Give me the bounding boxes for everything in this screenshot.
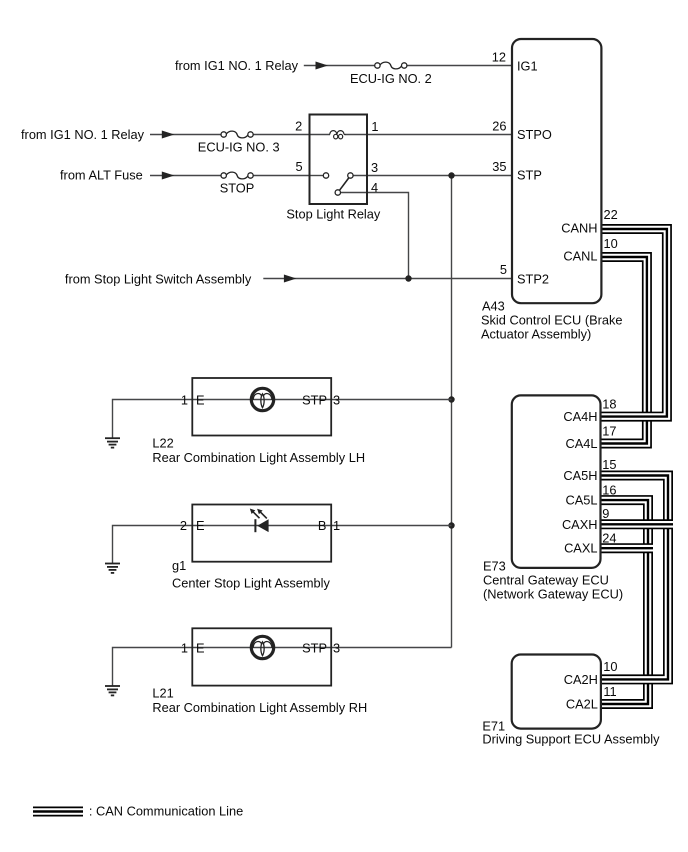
fuse STOP — [221, 172, 253, 179]
ground (L22) — [105, 438, 120, 447]
svg-text:18: 18 — [602, 397, 616, 412]
relay contact pin5 circle — [323, 173, 328, 178]
svg-text:2: 2 — [180, 518, 187, 533]
wire L22 row through box to STP bus — [192, 399, 451, 401]
bulb lamp L21 — [251, 636, 273, 658]
CAN line CA5L to CA2L — [601, 500, 649, 704]
arrow from Stop Light Switch Assembly — [284, 275, 297, 283]
svg-text:CANL: CANL — [563, 249, 597, 264]
wire g1 row through box to STP bus — [192, 525, 451, 527]
relay coil — [330, 131, 346, 139]
svg-text:Actuator Assembly): Actuator Assembly) — [481, 327, 591, 342]
svg-text:CA4L: CA4L — [565, 436, 597, 451]
wire relay pin3 to A43 STP — [353, 175, 512, 177]
svg-text:(Network Gateway ECU): (Network Gateway ECU) — [483, 587, 623, 602]
svg-text:CA5L: CA5L — [565, 493, 597, 508]
svg-text:IG1: IG1 — [517, 59, 538, 74]
svg-text:E: E — [196, 518, 205, 533]
svg-text:g1: g1 — [172, 558, 186, 573]
ECU box A43 Skid Control ECU — [512, 39, 601, 303]
svg-text:5: 5 — [295, 159, 302, 174]
svg-text:A43: A43 — [482, 299, 505, 314]
svg-text:: CAN Communication Line: : CAN Communication Line — [89, 804, 243, 819]
svg-text:1: 1 — [181, 640, 188, 655]
L21 box — [192, 628, 331, 685]
svg-text:35: 35 — [492, 159, 506, 174]
relay contact pin4 circle — [335, 190, 340, 195]
svg-text:ECU-IG NO. 2: ECU-IG NO. 2 — [350, 71, 432, 86]
L22 box — [192, 378, 331, 436]
svg-text:STP2: STP2 — [517, 272, 549, 287]
svg-text:STP: STP — [302, 392, 327, 407]
svg-text:10: 10 — [604, 236, 618, 251]
fuse ECU-IG NO. 3 — [221, 131, 253, 138]
svg-text:ECU-IG NO. 3: ECU-IG NO. 3 — [198, 140, 280, 155]
svg-text:1: 1 — [333, 518, 340, 533]
svg-text:from IG1 NO. 1 Relay: from IG1 NO. 1 Relay — [175, 58, 299, 73]
svg-text:CAXH: CAXH — [562, 517, 598, 532]
svg-text:CA4H: CA4H — [563, 409, 597, 424]
junction dot L22 row — [448, 396, 454, 402]
LED diode g1 — [250, 509, 269, 533]
wire g1 pin2 to ground — [113, 526, 193, 564]
svg-text:17: 17 — [602, 424, 616, 439]
wire STPO row from arrow to fuse — [150, 134, 221, 136]
svg-text:16: 16 — [602, 483, 616, 498]
svg-text:26: 26 — [492, 119, 506, 134]
arrow from ALT Fuse — [162, 172, 175, 180]
svg-text:Driving Support ECU Assembly: Driving Support ECU Assembly — [482, 732, 660, 747]
wire STP row fuse to relay — [253, 175, 309, 177]
wire relay pin4 horizontal and down to STP2 — [341, 193, 409, 279]
CAN line CANL to CA4L — [601, 257, 647, 444]
wire STP2 row arrow to A43 — [263, 278, 512, 280]
svg-text:STPO: STPO — [517, 127, 552, 142]
svg-text:from Stop Light Switch Assembl: from Stop Light Switch Assembly — [65, 272, 252, 287]
svg-text:24: 24 — [602, 530, 616, 545]
svg-text:STP: STP — [302, 640, 327, 655]
wire relay pin5 inside — [310, 175, 324, 177]
svg-text:3: 3 — [333, 640, 340, 655]
svg-text:CANH: CANH — [561, 221, 597, 236]
CAN line CANH to CA4H — [601, 229, 667, 417]
junction dot STP2 row pin4 — [405, 275, 411, 281]
svg-text:STOP: STOP — [220, 181, 255, 196]
wire STP row from arrow to fuse — [150, 175, 221, 177]
wire relay pin1 to A43 STPO — [345, 134, 512, 136]
svg-text:Stop Light Relay: Stop Light Relay — [286, 207, 381, 222]
ECU box E73 Central Gateway ECU — [512, 395, 601, 568]
wire STPO row fuse to relay — [253, 134, 309, 136]
wire IG1 row from arrow to fuse — [304, 65, 375, 67]
wire stop light feed vertical x451.5 — [451, 176, 453, 648]
svg-text:Skid Control ECU (Brake: Skid Control ECU (Brake — [481, 313, 623, 328]
bulb lamp L22 — [251, 388, 273, 410]
wire L21 row through box to STP bus corner — [192, 647, 451, 649]
arrow from IG1 NO.1 Relay (top) — [316, 62, 329, 70]
arrow from IG1 NO.1 Relay (row 2) — [162, 131, 175, 139]
svg-text:15: 15 — [602, 457, 616, 472]
svg-text:E: E — [196, 392, 205, 407]
junction dot g1 row — [448, 522, 454, 528]
svg-text:E73: E73 — [483, 559, 506, 574]
svg-text:3: 3 — [333, 392, 340, 407]
wire IG1 row fuse to A43 — [407, 65, 512, 67]
svg-text:1: 1 — [181, 392, 188, 407]
ground (g1) — [105, 564, 120, 573]
svg-text:1: 1 — [371, 119, 378, 134]
legend CAN communication line sample — [33, 807, 83, 817]
svg-text:CA2L: CA2L — [566, 697, 598, 712]
svg-text:9: 9 — [602, 506, 609, 521]
svg-text:Rear Combination Light Assembl: Rear Combination Light Assembly LH — [152, 450, 365, 465]
svg-text:12: 12 — [492, 50, 506, 65]
svg-text:Central Gateway ECU: Central Gateway ECU — [483, 573, 609, 588]
fuse ECU-IG NO. 2 — [375, 62, 407, 69]
CAN stub CAXL to L bus — [601, 543, 654, 553]
svg-text:Center Stop Light Assembly: Center Stop Light Assembly — [172, 576, 331, 591]
svg-text:CAXL: CAXL — [564, 541, 597, 556]
ECU box E71 Driving Support ECU — [512, 655, 601, 729]
svg-text:11: 11 — [603, 684, 616, 699]
svg-text:B: B — [318, 518, 327, 533]
svg-text:from IG1 NO. 1 Relay: from IG1 NO. 1 Relay — [21, 127, 145, 142]
svg-text:L22: L22 — [152, 436, 173, 451]
g1 box — [192, 505, 331, 562]
relay switch blade — [340, 178, 349, 190]
ground (L21) — [105, 686, 120, 695]
svg-text:3: 3 — [371, 160, 378, 175]
svg-text:E: E — [196, 640, 205, 655]
svg-text:CA2H: CA2H — [564, 672, 598, 687]
svg-text:10: 10 — [603, 659, 617, 674]
svg-text:CA5H: CA5H — [563, 468, 597, 483]
svg-text:L21: L21 — [152, 686, 173, 701]
svg-text:from ALT Fuse: from ALT Fuse — [60, 168, 143, 183]
svg-text:Rear Combination Light Assembl: Rear Combination Light Assembly RH — [152, 700, 367, 715]
svg-text:5: 5 — [500, 262, 507, 277]
wire L21 pin1 to ground — [113, 648, 193, 686]
svg-text:STP: STP — [517, 168, 542, 183]
svg-text:4: 4 — [371, 180, 378, 195]
relay box Stop Light Relay — [310, 115, 368, 205]
wire L22 pin1 to ground — [113, 400, 193, 438]
svg-text:2: 2 — [295, 118, 302, 133]
junction dot STP row — [448, 172, 454, 178]
svg-text:22: 22 — [604, 207, 618, 222]
relay contact pin3 circle — [348, 173, 353, 178]
CAN stub CAXH to H bus — [601, 519, 674, 529]
CAN line CA5H to CA2H — [601, 476, 669, 680]
wire relay coil to pin2 inside — [310, 134, 331, 136]
